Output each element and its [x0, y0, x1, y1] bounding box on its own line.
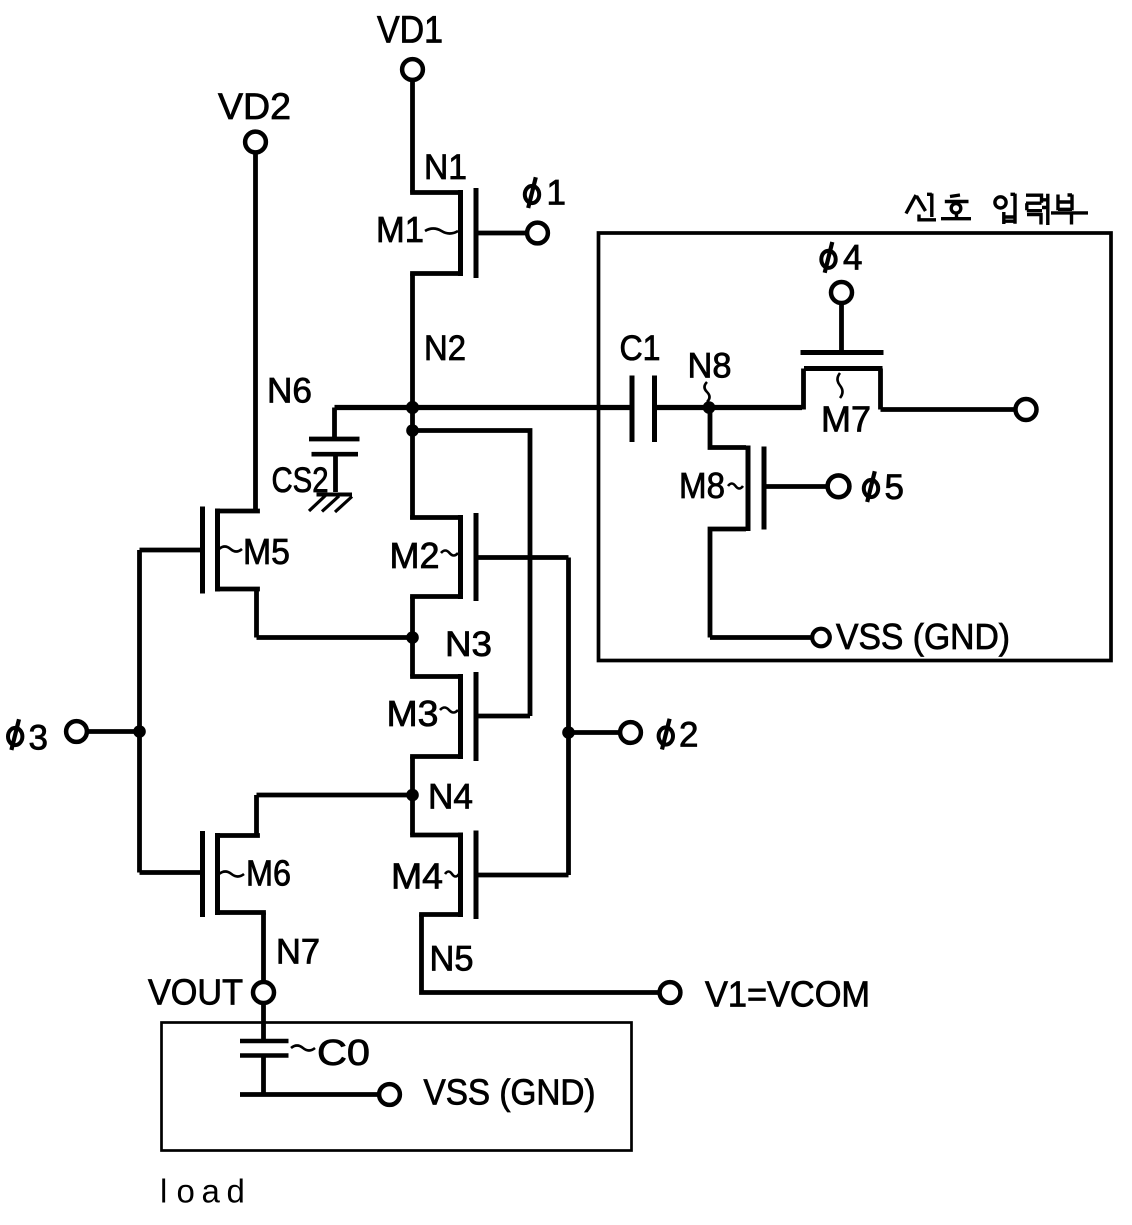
svg-text:VD2: VD2 [218, 86, 291, 127]
transistor M8 [679, 408, 827, 638]
svg-text:N1: N1 [424, 148, 467, 187]
wire N2 to M3 gate [413, 431, 531, 717]
svg-text:C0: C0 [317, 1032, 370, 1073]
svg-text:1: 1 [547, 174, 566, 213]
node N2 junction lower [406, 424, 419, 437]
svg-text:M2: M2 [390, 535, 440, 576]
terminal M7 output [1016, 399, 1037, 420]
ground [309, 495, 352, 513]
node phi3 junction [133, 725, 146, 738]
svg-text:C1: C1 [620, 329, 661, 368]
svg-text:N5: N5 [430, 940, 474, 979]
wire N4 vertical [413, 757, 474, 836]
svg-text:4: 4 [843, 239, 862, 278]
transistor M1 [376, 188, 528, 278]
transistor M4 [391, 831, 569, 920]
svg-text:N2: N2 [424, 329, 466, 368]
transistor M2 [390, 513, 569, 601]
wire M6 drain to N4 [257, 793, 413, 798]
svg-text:M8: M8 [679, 465, 725, 506]
wire VD2 to M5 [253, 153, 258, 512]
terminal VOUT [148, 972, 274, 1013]
svg-text:N8: N8 [688, 347, 732, 386]
svg-text:M4: M4 [391, 856, 443, 897]
svg-text:VD1: VD1 [377, 10, 443, 52]
terminal phi2 [569, 716, 699, 755]
terminal phi5 [828, 468, 904, 507]
svg-text:M5: M5 [243, 531, 290, 572]
load box [162, 1023, 632, 1151]
svg-text:2: 2 [679, 716, 698, 755]
wire M6 top to N4 [254, 795, 259, 836]
node N2 junction on main wire [406, 401, 419, 414]
wire M6 source to VOUT [261, 913, 266, 983]
svg-text:load: load [160, 1173, 245, 1210]
svg-text:N3: N3 [445, 625, 492, 664]
svg-text:N6: N6 [267, 372, 312, 411]
terminal phi1 [525, 174, 566, 244]
wire C0 to VSS terminal [240, 1092, 378, 1097]
wire N6 horizontal to C1 [267, 372, 631, 411]
transistor M6 [140, 831, 292, 917]
terminal VD2 [218, 86, 291, 152]
wire M5 drain to N3 [257, 635, 413, 640]
svg-text:M7: M7 [821, 399, 871, 440]
wire N8 to M7 [709, 405, 802, 410]
svg-text:V1=VCOM: V1=VCOM [705, 974, 870, 1015]
svg-text:M3: M3 [387, 693, 439, 734]
node N8 [688, 347, 732, 414]
node N7 label [276, 933, 320, 972]
svg-text:3: 3 [29, 719, 48, 758]
terminal VSS signal box [812, 616, 1010, 657]
wire M8 to VSS [710, 635, 811, 640]
terminal VSS load [379, 1072, 595, 1113]
node N4 junction [406, 789, 419, 802]
wire C1 to N8 [657, 405, 709, 410]
transistor M5 [140, 507, 291, 594]
wire phi2 bus [566, 558, 571, 876]
terminal VD1 [377, 10, 443, 80]
transistor M7 [801, 304, 884, 440]
terminal phi3 [8, 719, 140, 758]
capacitor CS2 [272, 408, 360, 501]
transistor M3 [387, 672, 531, 761]
load label [160, 1173, 245, 1210]
wire M7 to output [881, 407, 1016, 412]
svg-text:5: 5 [885, 468, 904, 507]
wire M5 source down [254, 589, 259, 638]
wire VD1 to M1 drain [410, 80, 415, 193]
capacitor C1 [620, 329, 661, 442]
svg-text:N4: N4 [428, 778, 473, 817]
svg-text:N7: N7 [276, 933, 320, 972]
node N3 junction [406, 631, 419, 644]
svg-text:VSS (GND): VSS (GND) [836, 616, 1010, 657]
terminal phi4 [821, 239, 862, 304]
wire VOUT to C0 [261, 1004, 266, 1041]
svg-text:VSS (GND): VSS (GND) [424, 1072, 596, 1113]
node N1 label [424, 148, 467, 187]
svg-text:M6: M6 [246, 853, 291, 894]
signal input box [599, 233, 1112, 661]
node phi2 junction [562, 726, 575, 739]
capacitor C0 [240, 1032, 370, 1095]
wire N2 vertical [413, 274, 467, 520]
wire N3 vertical [413, 597, 493, 677]
caption sinho imnyeokbu [906, 194, 1088, 226]
wire N5 [422, 915, 659, 993]
svg-text:M1: M1 [376, 209, 424, 250]
svg-text:VOUT: VOUT [148, 972, 243, 1013]
terminal V1=VCOM [660, 974, 870, 1015]
wire phi3 bus [137, 550, 142, 873]
